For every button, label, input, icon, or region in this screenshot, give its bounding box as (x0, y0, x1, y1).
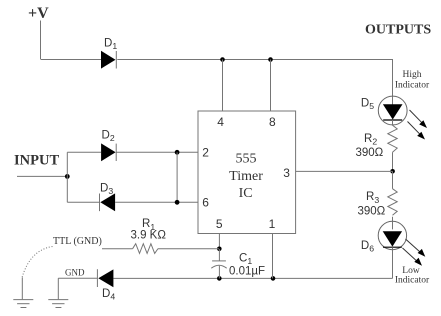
wire link vertical (176, 152, 178, 202)
LED D6 (378, 221, 406, 249)
wire D3 to pin6 (115, 201, 198, 203)
svg-text:D6: D6 (361, 240, 374, 254)
svg-text:R2: R2 (364, 133, 377, 147)
svg-text:Low: Low (402, 266, 420, 276)
svg-text:R3: R3 (366, 191, 379, 205)
wire pin8 lead (270, 60, 272, 112)
svg-text:IC: IC (239, 186, 253, 201)
wire node to R3 (392, 171, 394, 188)
svg-text:1: 1 (269, 217, 276, 231)
resistor R2 (388, 125, 397, 152)
IC pin number 1 (269, 217, 276, 231)
wire GND horizontal (58, 277, 97, 279)
op-amp U1 555 timer IC box (198, 111, 296, 234)
label D3 (100, 183, 113, 197)
junction dot pin4 rail (220, 57, 225, 62)
wire TTL dotted lead (22, 247, 53, 279)
wire D6 to bottom rail (392, 250, 394, 279)
label D5 (361, 97, 374, 111)
IC pin number 3 (283, 166, 290, 180)
junction dot link bottom (175, 200, 180, 205)
svg-text:Indicator: Indicator (395, 276, 430, 286)
svg-text:390Ω: 390Ω (356, 147, 384, 159)
svg-text:High: High (403, 70, 422, 80)
capacitor C1 (211, 261, 226, 279)
svg-text:D3: D3 (100, 183, 113, 197)
svg-text:INPUT: INPUT (14, 153, 59, 169)
wire input vertical (66, 152, 68, 202)
label R1 (131, 218, 167, 241)
svg-text:0.01µF: 0.01µF (229, 266, 265, 278)
diode D1 (101, 51, 116, 69)
wire top rail left of D1 (41, 59, 102, 61)
diode D2 (101, 143, 116, 161)
svg-text:8: 8 (269, 115, 276, 129)
wire input to D3 (67, 201, 99, 203)
light arrows D5 (408, 110, 428, 140)
svg-text:D5: D5 (361, 97, 374, 111)
wire pin5 lead (218, 234, 220, 249)
IC pin number 5 (216, 217, 223, 231)
wire pin1 lead (272, 234, 274, 279)
svg-text:Timer: Timer (229, 169, 263, 184)
wire input to D2 (67, 151, 101, 153)
wire TTL to R1 (102, 248, 133, 250)
IC pin number 6 (202, 195, 209, 209)
text INPUT (14, 153, 59, 169)
junction dot pin5 / R1 (217, 247, 222, 252)
junction dot input (65, 174, 70, 179)
svg-text:D1: D1 (104, 38, 117, 52)
svg-text:OUTPUTS: OUTPUTS (365, 23, 431, 38)
label D6 (361, 240, 374, 254)
label D4 (102, 288, 115, 302)
wire R1 to pin5 node (158, 248, 219, 250)
diode D4 (97, 269, 113, 287)
label D1 (104, 38, 117, 52)
svg-text:5: 5 (216, 217, 223, 231)
wire R3 to LED D6 (392, 217, 394, 222)
text TTL (GND) (53, 236, 102, 247)
label C1 (229, 252, 265, 277)
ground TTL (13, 300, 33, 308)
wire bottom rail (113, 277, 392, 279)
svg-text:GND: GND (65, 268, 85, 278)
junction dot C1 bottom (217, 276, 222, 281)
text OUTPUTS (365, 23, 431, 38)
svg-text:2: 2 (202, 145, 209, 159)
label D2 (102, 129, 115, 143)
svg-text:+V: +V (28, 5, 49, 22)
text 555 Timer IC (229, 152, 263, 202)
wire GND vertical (57, 278, 59, 299)
wire TTL lead vertical (21, 278, 23, 300)
light arrows D6 (403, 239, 426, 266)
svg-text:555: 555 (236, 152, 257, 167)
wire input stub (17, 175, 67, 177)
diode D3 (100, 193, 116, 211)
ground GND (48, 300, 68, 308)
junction dot pin8 rail (268, 57, 273, 62)
resistor R1 (133, 244, 158, 254)
wire pin4 lead (222, 60, 224, 112)
wire pin5 node to C1 (218, 249, 220, 261)
node +V (28, 5, 49, 22)
svg-text:C1: C1 (239, 252, 252, 266)
wire D2 to pin2 (116, 151, 198, 153)
IC pin number 8 (269, 115, 276, 129)
svg-text:6: 6 (202, 195, 209, 209)
label R3 (358, 191, 386, 217)
svg-text:D4: D4 (102, 288, 115, 302)
wire pin 3 (296, 170, 393, 172)
svg-text:3: 3 (283, 166, 290, 180)
svg-text:3.9 KΩ: 3.9 KΩ (131, 230, 167, 242)
wire +V vertical (40, 21, 42, 60)
junction dot node pin3 (390, 169, 395, 174)
svg-text:390Ω: 390Ω (358, 206, 386, 218)
IC pin number 2 (202, 145, 209, 159)
svg-text:Indicator: Indicator (395, 81, 430, 91)
svg-text:4: 4 (217, 115, 224, 129)
wire R2 to pin3 node (392, 152, 394, 171)
text Low Indicator (395, 266, 430, 286)
text High Indicator (395, 70, 430, 91)
resistor R3 (388, 189, 397, 216)
LED D5 (378, 96, 407, 125)
wire rail down to LED D5 (392, 60, 394, 97)
wire top rail (117, 59, 393, 61)
label R2 (356, 133, 384, 159)
junction dot link top (175, 150, 180, 155)
svg-text:D2: D2 (102, 129, 115, 143)
IC pin number 4 (217, 115, 224, 129)
text GND (65, 268, 85, 278)
svg-text:TTL (GND): TTL (GND) (53, 236, 102, 247)
junction dot pin1 bottom (271, 276, 276, 281)
